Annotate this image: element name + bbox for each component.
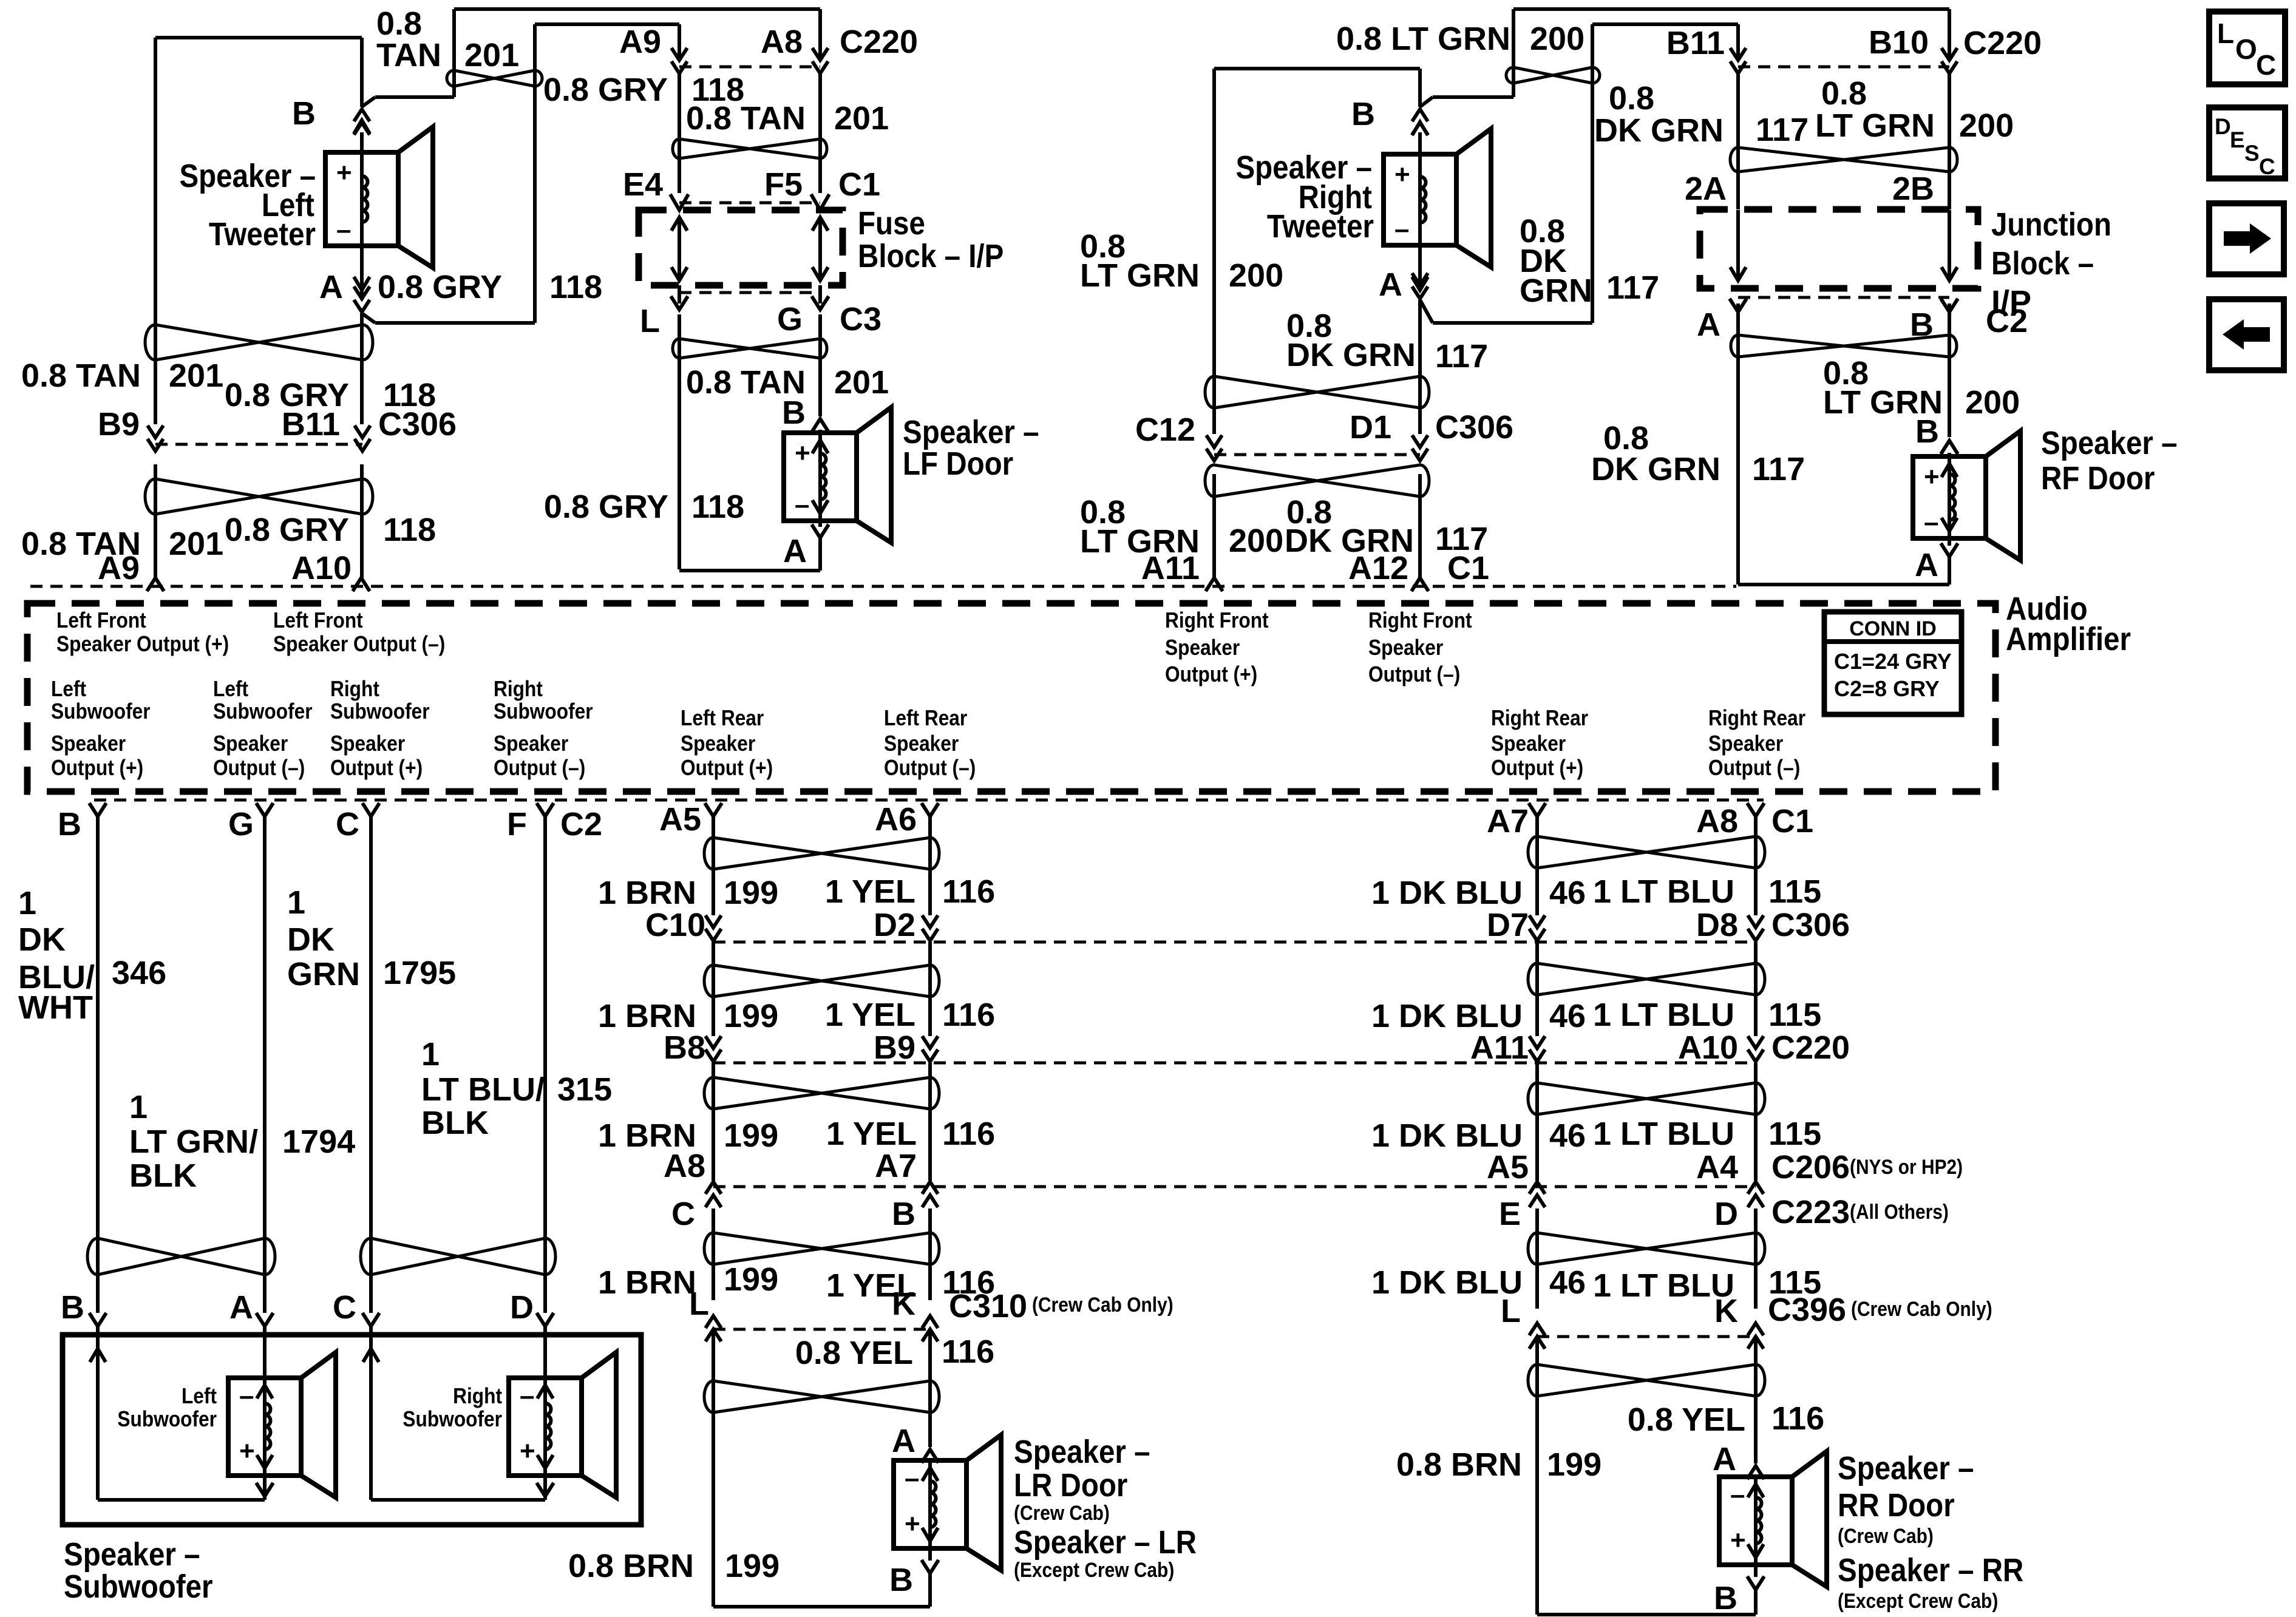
svg-text:Speaker: Speaker (884, 731, 959, 756)
svg-text:46: 46 (1549, 998, 1586, 1034)
svg-text:A5: A5 (1487, 1149, 1529, 1185)
svg-text:200: 200 (1530, 21, 1584, 57)
svg-text:Speaker: Speaker (1491, 731, 1566, 756)
svg-text:C220: C220 (1963, 25, 2042, 61)
svg-text:118: 118 (549, 269, 602, 305)
svg-text:Output (+): Output (+) (681, 756, 773, 780)
svg-text:LT GRN/: LT GRN/ (129, 1124, 258, 1160)
wire: DK BLU/WHT 346 (x=161) (96, 816, 100, 1313)
svg-text:(NYS or HP2): (NYS or HP2) (1850, 1155, 1963, 1178)
svg-text:0.8: 0.8 (376, 5, 422, 42)
svg-text:C1=24 GRY: C1=24 GRY (1834, 649, 1952, 674)
svg-text:1: 1 (129, 1089, 148, 1125)
svg-text:(Crew Cab Only): (Crew Cab Only) (1032, 1293, 1173, 1316)
wire: vertical x=2623 down to tweeter A jog (1591, 24, 1594, 323)
svg-text:Speaker: Speaker (1165, 636, 1240, 660)
svg-text:200: 200 (1965, 384, 2020, 421)
svg-text:+: + (520, 1436, 535, 1466)
speaker coil right subwoofer (543, 1378, 547, 1476)
svg-text:200: 200 (1229, 523, 1283, 559)
connector B arrow into LF door speaker (812, 419, 829, 432)
wire: jog from B to twist (y=160) (375, 95, 454, 99)
svg-text:Left: Left (51, 677, 86, 701)
svg-text:Speaker – RR: Speaker – RR (1838, 1551, 2023, 1588)
junction block internal wire 2B-B (1948, 210, 1951, 280)
svg-text:A8: A8 (664, 1148, 705, 1184)
twisted pair left trunk lower (145, 479, 373, 514)
svg-text:0.8 YEL: 0.8 YEL (795, 1335, 913, 1371)
svg-text:1: 1 (18, 885, 36, 921)
wire: LT BLU/BLK 315 (x=898) (543, 816, 547, 1313)
svg-text:1794: 1794 (282, 1124, 355, 1160)
connector arrows A11/A10 (1529, 1036, 1545, 1048)
connector A arrows on right tweeter wire (1412, 273, 1428, 285)
connector arrows D7/D8 (1529, 915, 1545, 927)
svg-text:C306: C306 (1435, 409, 1513, 446)
svg-text:0.8 BRN: 0.8 BRN (1396, 1446, 1522, 1483)
svg-text:Left Rear: Left Rear (681, 706, 764, 730)
svg-text:–: – (1730, 1480, 1745, 1510)
svg-text:2B: 2B (1892, 171, 1934, 207)
twisted pair left trunk upper (145, 325, 373, 360)
svg-text:L: L (640, 303, 660, 339)
svg-text:(Except Crew Cab): (Except Crew Cab) (1014, 1558, 1174, 1581)
svg-text:1 LT BLU: 1 LT BLU (1593, 1116, 1734, 1152)
connector C220 arrows A9/A8 (671, 48, 687, 60)
icon: DESC box (2209, 107, 2285, 178)
connector arrows out of amplifier bottom (89, 803, 106, 816)
connector arrows A8/A7 (up) (705, 1195, 721, 1207)
svg-text:D1: D1 (1350, 409, 1391, 446)
svg-text:1 YEL: 1 YEL (825, 997, 915, 1033)
speaker horn LF door (857, 407, 891, 543)
wire: left tweeter branch (x=596) (360, 38, 364, 107)
twisted pair left rear row4 (704, 1233, 939, 1264)
wire: YEL 116 column x=1532 (928, 816, 932, 915)
svg-text:RR Door: RR Door (1838, 1486, 1955, 1524)
connector arrows L/K (up) (705, 1329, 721, 1341)
connector B arrow out of LR door speaker (922, 1560, 939, 1573)
svg-text:115: 115 (1768, 873, 1821, 910)
svg-text:A6: A6 (875, 801, 917, 838)
svg-text:D: D (510, 1289, 534, 1326)
svg-text:Subwoofer: Subwoofer (402, 1407, 502, 1431)
svg-text:1 DK BLU: 1 DK BLU (1371, 998, 1523, 1034)
wire: LT GRN 200 column x=3211 (1948, 9, 1951, 59)
svg-text:–: – (795, 490, 809, 520)
twisted pair A/B column right (1731, 335, 1957, 357)
connector A arrow into LR door speaker (922, 1449, 939, 1463)
svg-text:Output (–): Output (–) (1368, 662, 1460, 686)
connector arrows A/B below junction block (1730, 299, 1747, 312)
svg-text:C1: C1 (1447, 550, 1489, 586)
svg-text:Speaker Output (+): Speaker Output (+) (56, 632, 229, 656)
svg-text:Speaker: Speaker (213, 731, 288, 756)
svg-text:Subwoofer: Subwoofer (494, 699, 593, 724)
svg-text:C: C (2256, 49, 2276, 81)
svg-text:Speaker: Speaker (681, 731, 755, 756)
svg-text:A7: A7 (1487, 803, 1529, 839)
svg-text:+: + (1924, 462, 1940, 492)
speaker symbol box LR door (894, 1460, 966, 1548)
svg-text:199: 199 (724, 1261, 778, 1298)
svg-text:1795: 1795 (383, 955, 456, 991)
svg-text:–: – (1394, 214, 1409, 244)
svg-text:Subwoofer: Subwoofer (64, 1568, 213, 1605)
svg-text:+: + (1730, 1525, 1746, 1555)
svg-text:D: D (1714, 1196, 1738, 1232)
svg-text:Speaker –: Speaker – (64, 1536, 200, 1573)
wire: DK BLU 46 column x=2532 (1535, 816, 1539, 915)
svg-text:0.8 GRY: 0.8 GRY (225, 512, 349, 548)
wire: GRY 118 column x=1119 (678, 24, 681, 59)
twisted pair right rear row4 (1528, 1233, 1765, 1264)
connector dashed line row3 (C206/C223) (713, 1185, 1756, 1188)
svg-text:B: B (58, 806, 81, 842)
svg-text:A11: A11 (1470, 1029, 1529, 1066)
icon: right arrow box (2209, 203, 2284, 274)
connector arrows B8/B9 (705, 1036, 721, 1048)
svg-text:Left Rear: Left Rear (884, 706, 967, 730)
svg-text:GRN: GRN (287, 956, 360, 992)
wire: jog from A to x=881 (y=532) (375, 321, 535, 325)
svg-text:DK GRN: DK GRN (1286, 337, 1416, 373)
speaker horn right subwoofer (582, 1352, 616, 1497)
svg-text:WHT: WHT (18, 989, 93, 1026)
svg-text:1 YEL: 1 YEL (826, 1116, 917, 1152)
svg-text:RF Door: RF Door (2041, 459, 2155, 497)
svg-text:C223: C223 (1771, 1194, 1850, 1230)
svg-text:C220: C220 (1771, 1029, 1850, 1066)
speaker symbol box RF door (1913, 456, 1986, 538)
connector C306 dashed line right (1214, 453, 1420, 456)
svg-text:Speaker – LR: Speaker – LR (1014, 1524, 1197, 1561)
connector B arrows on right tweeter wire (1412, 123, 1428, 135)
svg-text:A: A (1713, 1441, 1736, 1477)
svg-text:Tweeter: Tweeter (1267, 208, 1374, 245)
connector dashed line below junction block (C2) (1738, 296, 1949, 299)
right tweeter wire arrowheads (1412, 122, 1428, 135)
connector arrows C10/D2 (705, 915, 721, 927)
svg-text:BLK: BLK (421, 1105, 489, 1141)
svg-text:116: 116 (942, 1334, 994, 1370)
svg-text:1 DK BLU: 1 DK BLU (1371, 1117, 1523, 1154)
svg-text:315: 315 (557, 1071, 612, 1108)
twisted pair B11/B10 columns (1730, 147, 1957, 172)
svg-text:46: 46 (1549, 875, 1586, 911)
svg-text:Right Front: Right Front (1165, 608, 1269, 632)
svg-text:B: B (889, 1562, 913, 1598)
wire: left subwoofer A drop (263, 1326, 267, 1378)
svg-text:C206: C206 (1771, 1149, 1850, 1185)
svg-text:Block – I/P: Block – I/P (858, 237, 1004, 274)
left tweeter wire arrowheads (354, 120, 370, 134)
connector arrows L/K right (up) (1529, 1337, 1545, 1349)
svg-text:TAN: TAN (376, 37, 441, 73)
svg-text:A9: A9 (98, 550, 140, 586)
connector A arrows on left tweeter wire (354, 286, 370, 299)
speaker symbol box right tweeter (1384, 154, 1456, 245)
svg-text:CONN ID: CONN ID (1849, 617, 1937, 640)
wire: DK GRN 1794/1795 (x=611) (369, 816, 373, 1313)
svg-text:B: B (292, 95, 316, 132)
wire: right tweeter branch (x=2339) (1418, 69, 1422, 107)
svg-text:Right Front: Right Front (1368, 608, 1472, 632)
svg-text:F5: F5 (764, 166, 803, 203)
svg-text:B9: B9 (98, 406, 140, 442)
svg-text:Output (+): Output (+) (1165, 662, 1257, 686)
svg-text:1 YEL: 1 YEL (825, 873, 915, 910)
svg-text:BLK: BLK (129, 1158, 197, 1194)
twisted pair left rear row3 (704, 1077, 939, 1109)
twisted pair A9/A8 columns (673, 139, 827, 158)
twisted pair symbol top-right (LT GRN/DK GRN) (1506, 67, 1600, 83)
svg-text:200: 200 (1959, 107, 2014, 144)
svg-text:0.8 GRY: 0.8 GRY (543, 72, 668, 108)
svg-text:Amplifier: Amplifier (2006, 620, 2131, 657)
svg-text:LT BLU/: LT BLU/ (421, 1071, 545, 1108)
svg-text:46: 46 (1549, 1117, 1586, 1154)
svg-text:A10: A10 (291, 550, 352, 586)
svg-text:C2: C2 (1986, 303, 2028, 339)
speaker coil left tweeter (360, 152, 364, 246)
svg-text:117: 117 (1752, 451, 1805, 487)
svg-text:+: + (795, 438, 810, 468)
svg-text:B8: B8 (664, 1029, 705, 1066)
connector dashed line row2 (C220) (713, 1062, 1756, 1065)
svg-text:B: B (782, 395, 806, 431)
svg-text:A12: A12 (1348, 550, 1408, 586)
svg-text:Output (+): Output (+) (330, 756, 423, 780)
svg-text:–: – (336, 215, 351, 245)
svg-text:201: 201 (834, 100, 889, 137)
svg-text:DK GRN: DK GRN (1594, 112, 1724, 149)
connector C220 dashed line (A9-A8) (679, 66, 820, 69)
wire: TAN 201 trunk (x=256) from box top to amplifier (154, 38, 157, 424)
wire: top run y=15 to A8 (454, 7, 820, 11)
connector arrows into amplifier A11/A12 (1206, 578, 1223, 591)
speaker coil right tweeter (1418, 154, 1422, 245)
svg-text:1 DK BLU: 1 DK BLU (1371, 1264, 1523, 1301)
svg-text:A: A (1379, 266, 1402, 303)
speaker horn right tweeter (1456, 129, 1491, 267)
svg-text:B10: B10 (1869, 24, 1929, 61)
svg-text:1: 1 (287, 884, 305, 921)
wire: top run y=15 to B10 (1513, 7, 1949, 11)
svg-text:C12: C12 (1135, 412, 1195, 448)
svg-text:199: 199 (724, 998, 778, 1034)
wire: jog from A to x=2623 (y=532) (1433, 321, 1592, 325)
svg-text:(Crew Cab Only): (Crew Cab Only) (1851, 1297, 1992, 1320)
svg-text:LR Door: LR Door (1014, 1466, 1128, 1503)
svg-text:–: – (520, 1381, 534, 1411)
svg-text:Right: Right (494, 677, 543, 701)
fuse block internal wire F5-G (818, 217, 822, 280)
svg-text:A8: A8 (761, 24, 803, 60)
svg-text:K: K (892, 1286, 915, 1322)
svg-text:G: G (228, 806, 254, 842)
svg-text:C306: C306 (378, 406, 457, 442)
wire: BRN 199 column x=1175 (712, 816, 715, 915)
speaker coil LF door (818, 433, 822, 521)
svg-text:A: A (1915, 547, 1938, 583)
svg-text:Right Rear: Right Rear (1491, 706, 1588, 730)
svg-text:O: O (2235, 33, 2257, 65)
connector dashed line above fuse block (679, 202, 820, 205)
twisted pair L/G column (673, 339, 827, 358)
svg-text:C1: C1 (1771, 803, 1813, 839)
svg-text:C: C (336, 806, 359, 842)
svg-text:A: A (229, 1289, 253, 1326)
connector B arrow out of RR door speaker (1747, 1576, 1764, 1590)
speaker symbol box LF door (784, 433, 857, 521)
svg-text:199: 199 (724, 875, 778, 911)
svg-text:0.8 GRY: 0.8 GRY (544, 489, 668, 525)
svg-text:–: – (1924, 507, 1938, 537)
speaker coil RR door (1754, 1477, 1758, 1565)
svg-text:201: 201 (169, 526, 223, 562)
connector C306 arrows C12/D1 (1206, 435, 1222, 447)
wire: DK GRN 117 column x=2863 (1736, 24, 1740, 59)
speaker horn RR door (1792, 1451, 1827, 1587)
audio amplifier dashed box (27, 603, 1995, 792)
wire: LT GRN 200 trunk (x=2000) (1212, 69, 1216, 434)
svg-text:C: C (2259, 154, 2275, 179)
twisted pair right trunk upper (1205, 376, 1429, 408)
svg-text:B: B (1915, 413, 1939, 450)
svg-text:DK: DK (18, 921, 66, 958)
wire: vertical x=2493 to top run (1512, 9, 1515, 97)
svg-text:200: 200 (1229, 257, 1283, 294)
svg-text:Subwoofer: Subwoofer (51, 699, 151, 724)
twisted pair right rear row2 (1528, 963, 1765, 995)
svg-text:C2: C2 (560, 806, 602, 842)
svg-text:LT GRN: LT GRN (1080, 257, 1200, 294)
wire: right subwoofer D drop (543, 1326, 547, 1378)
wire: second top run y=40 to A9 (535, 22, 679, 26)
speaker coil RF door (1948, 456, 1951, 538)
svg-text:B: B (1714, 1580, 1737, 1616)
svg-text:0.8 BRN: 0.8 BRN (568, 1548, 694, 1584)
svg-text:L: L (689, 1286, 709, 1322)
svg-text:1 LT BLU: 1 LT BLU (1593, 1267, 1734, 1304)
svg-text:0.8 YEL: 0.8 YEL (1628, 1402, 1745, 1438)
svg-text:Speaker: Speaker (51, 731, 126, 756)
wire: second top run y=40 to B11 (1592, 22, 1738, 26)
svg-text:Output (+): Output (+) (1491, 756, 1583, 780)
speaker horn left tweeter (398, 127, 433, 268)
svg-text:+: + (905, 1509, 920, 1539)
svg-text:(All Others): (All Others) (1850, 1200, 1949, 1223)
svg-text:46: 46 (1549, 1264, 1586, 1301)
svg-text:A: A (892, 1423, 915, 1459)
svg-text:A5: A5 (659, 801, 701, 838)
svg-text:C2=8 GRY: C2=8 GRY (1834, 676, 1940, 701)
svg-text:Left: Left (213, 677, 248, 701)
twisted pair symbol top-left (TAN/GRY) (447, 70, 542, 86)
svg-text:1 LT BLU: 1 LT BLU (1593, 997, 1734, 1033)
speaker horn LR door (966, 1435, 1001, 1570)
wire: right subwoofer bottom link (371, 1498, 545, 1502)
svg-text:117: 117 (1435, 338, 1488, 375)
svg-text:Output (–): Output (–) (1708, 756, 1800, 780)
svg-text:201: 201 (464, 37, 519, 73)
connector dashed line C310 (713, 1328, 930, 1331)
svg-text:199: 199 (1547, 1446, 1601, 1483)
svg-text:C: C (333, 1289, 356, 1326)
icon: LOC box (2209, 12, 2285, 84)
svg-text:C396: C396 (1768, 1292, 1846, 1328)
svg-text:D8: D8 (1696, 907, 1738, 943)
svg-text:A10: A10 (1678, 1029, 1738, 1066)
svg-text:K: K (1714, 1293, 1738, 1329)
wire: right-front circuit outer loop top edge (1214, 67, 1420, 70)
svg-text:Speaker: Speaker (1368, 636, 1443, 660)
svg-text:A9: A9 (619, 24, 661, 60)
svg-text:C306: C306 (1771, 907, 1850, 943)
svg-text:Junction: Junction (1991, 206, 2111, 243)
connector arrows into amplifier A9/A10 (147, 578, 164, 591)
connector A arrow out of LF door speaker (812, 524, 829, 538)
svg-text:117: 117 (1756, 112, 1809, 148)
speaker symbol box left subwoofer (228, 1378, 301, 1476)
svg-text:Block –: Block – (1991, 245, 2094, 282)
svg-text:201: 201 (169, 358, 223, 394)
svg-text:S: S (2244, 141, 2260, 166)
svg-text:LF Door: LF Door (903, 445, 1013, 482)
connector C220 arrows B11/B10 (1730, 48, 1746, 60)
twisted pair right rear row1 (1528, 836, 1765, 868)
svg-text:199: 199 (725, 1548, 779, 1584)
svg-text:116: 116 (942, 997, 995, 1033)
svg-text:116: 116 (942, 1116, 995, 1152)
svg-text:Speaker: Speaker (1708, 731, 1783, 756)
svg-text:B: B (892, 1196, 915, 1232)
speaker coil left subwoofer (263, 1378, 267, 1476)
connector B arrow into RF door speaker (1941, 441, 1958, 454)
svg-text:DK GRN: DK GRN (1591, 451, 1720, 487)
svg-text:116: 116 (1771, 1400, 1824, 1437)
svg-text:C10: C10 (645, 907, 705, 943)
svg-text:L: L (1501, 1293, 1521, 1329)
wire: jog from B to twist (y=160) right (1433, 95, 1513, 99)
twisted pair right rear row3 (1528, 1083, 1765, 1114)
svg-text:115: 115 (1768, 997, 1821, 1033)
svg-text:Left Front: Left Front (273, 608, 363, 632)
svg-text:–: – (239, 1381, 254, 1411)
wire: LT GRN/BLK 1794 (x=436) (263, 816, 267, 1313)
twisted pair left rear row2 (704, 965, 939, 997)
wire: left subwoofer B drop (96, 1326, 100, 1500)
svg-text:Speaker –: Speaker – (1014, 1433, 1150, 1470)
svg-text:–: – (905, 1463, 919, 1493)
connector C220 dashed line (B11-B10) (1738, 66, 1949, 69)
svg-text:G: G (777, 301, 803, 337)
svg-text:0.8: 0.8 (1821, 75, 1867, 112)
svg-text:199: 199 (724, 1117, 778, 1154)
svg-text:Subwoofer: Subwoofer (117, 1407, 217, 1431)
svg-text:LT GRN: LT GRN (1815, 107, 1935, 144)
connector B arrows on left tweeter wire (354, 123, 370, 135)
junction block I/P dashed box (1700, 209, 1978, 288)
connector arrows into subwoofer box (89, 1313, 106, 1326)
svg-text:118: 118 (383, 512, 436, 548)
twisted pair left rear row1 (704, 838, 939, 869)
svg-text:1 LT BLU: 1 LT BLU (1593, 873, 1734, 910)
wire: vertical x=881 down to tweeter A jog (533, 24, 537, 323)
wire: vertical x=748 up to top run (452, 9, 456, 97)
amplifier connector dashed line (top) (30, 585, 1736, 588)
